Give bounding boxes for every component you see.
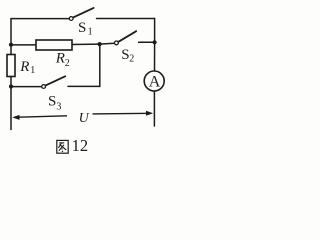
ammeter A	[144, 71, 164, 91]
switch S2	[115, 31, 137, 45]
wire: middle branch, node A to R2	[11, 44, 37, 46]
wire: node B to S2	[100, 42, 115, 45]
svg-text:2: 2	[65, 58, 70, 69]
svg-text:3: 3	[56, 102, 61, 113]
voltage U dimension line, left segment with arrowhead	[12, 115, 67, 120]
wire: right vertical, corner down to node C	[154, 19, 156, 43]
node C junction (right wire / S2 wire)	[153, 40, 157, 44]
resistor R1	[7, 55, 15, 77]
wire: top side, left corner to S1	[11, 18, 69, 20]
wire: R2 to node B	[72, 43, 100, 45]
wire: left vertical side	[10, 19, 12, 130]
svg-text:S: S	[48, 93, 56, 109]
node B junction (R2 branch / S3 connector)	[98, 42, 102, 46]
svg-text:2: 2	[129, 53, 134, 64]
wire: S3 branch, node D to S3	[11, 86, 42, 88]
wire: S2 to node C	[139, 41, 155, 43]
svg-text:R: R	[55, 51, 65, 67]
svg-text:U: U	[79, 111, 90, 126]
switch S3	[42, 76, 66, 88]
label S3	[48, 93, 61, 112]
caption: hanzi "tu" (figure) drawn as strokes	[57, 140, 68, 153]
wire: vertical connector from node B down to S3 branch	[99, 44, 101, 86]
label R1	[19, 59, 35, 76]
svg-text:1: 1	[88, 27, 93, 38]
svg-text:S: S	[78, 20, 86, 36]
wire: ammeter to bottom right terminal	[153, 91, 155, 126]
node A junction (left wire / R2 branch)	[9, 43, 13, 47]
svg-text:12: 12	[72, 136, 89, 155]
node D junction (left wire / S3 branch)	[9, 84, 13, 88]
label S2	[121, 47, 134, 64]
wire: S3 to corner	[68, 85, 100, 87]
resistor R2	[36, 40, 72, 50]
voltage U dimension line, right segment with arrowhead	[93, 111, 154, 116]
wire: top side, S1 to top-right corner	[97, 18, 155, 20]
svg-text:1: 1	[30, 65, 35, 76]
label R2	[55, 51, 70, 70]
wire: right vertical, node C to ammeter	[154, 42, 156, 71]
switch S1	[69, 8, 93, 21]
svg-text:R: R	[19, 59, 29, 75]
svg-text:A: A	[149, 73, 161, 90]
label S1	[78, 20, 93, 38]
